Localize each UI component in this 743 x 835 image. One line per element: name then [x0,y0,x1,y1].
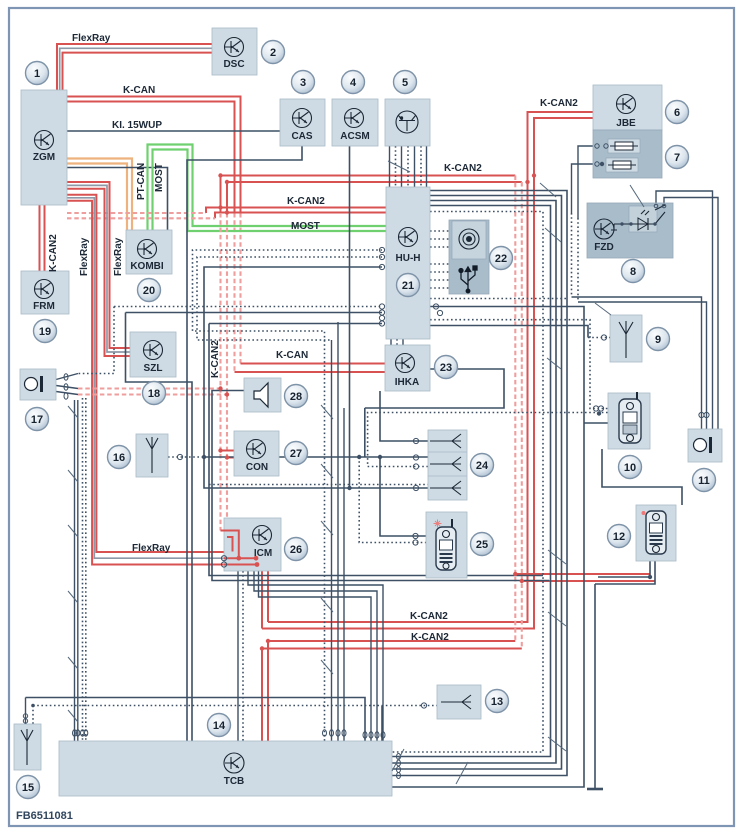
svg-text:13: 13 [491,696,503,708]
node 11 [693,469,716,492]
svg-text:KOMBI: KOMBI [130,261,164,272]
antenna symbol box 16 [146,437,158,473]
node 9 [647,328,670,351]
node 1 [26,62,49,85]
node 17 [26,408,49,431]
antenna symbol box 13 [441,695,471,709]
svg-text:TCB: TCB [224,776,245,787]
wire antenna 15 dotted to antenna 13 [33,705,437,707]
node 3 [292,71,315,94]
wire channel 408 [365,369,504,408]
antenna splitter box 24 [428,430,467,500]
wire fuse box to camera 11 [572,164,594,213]
svg-text:15: 15 [22,782,34,794]
speaker symbol box 28 [254,383,268,407]
wire K-CAN2 ZGM to FRM [39,205,41,271]
node 19 [34,320,57,343]
svg-text:16: 16 [113,452,125,464]
svg-text:K-CAN2: K-CAN2 [48,234,59,272]
svg-text:1: 1 [34,68,40,80]
wire FlexRay B ZGM to SZL [67,182,130,348]
wire ICM to TCB [237,571,239,741]
telephone symbol box 10 [619,392,641,443]
control unit SZL box 18 [130,332,176,377]
wire red pair to telephone 12 [515,573,650,575]
node 10 [619,456,642,479]
svg-text:11: 11 [698,475,710,487]
svg-text:9: 9 [655,334,661,346]
svg-text:FlexRay: FlexRay [113,237,124,276]
antenna symbols box 24 [430,434,461,448]
svg-text:ZGM: ZGM [33,152,55,163]
svg-text:19: 19 [39,326,51,338]
svg-text:FRM: FRM [33,301,55,312]
microphone box 11 [688,429,722,462]
wire box5 stubs to HU-H [389,146,391,187]
node 21 [397,274,420,297]
wire antenna 15 solid [26,698,366,742]
control unit IHKA box 23 [385,345,430,391]
svg-text:23: 23 [440,362,452,374]
wire ZGM to KOMBI dark [67,168,168,231]
svg-text:2: 2 [270,47,276,59]
node 5 [394,71,417,94]
wire MOST KOMBI to HU-H [148,145,387,231]
wire dotted channel to box24 [209,484,428,486]
wire box24 top link [380,391,428,441]
svg-text:6: 6 [674,107,680,119]
wire dotted bus to HU-H c [193,250,383,741]
svg-text:27: 27 [290,448,302,460]
svg-text:MOST: MOST [291,221,320,232]
wire CAS down to TCB [187,146,302,741]
svg-text:26: 26 [290,544,302,556]
svg-text:CON: CON [246,462,268,473]
node 7 [666,146,689,169]
microphone symbol box 17 [25,376,44,392]
svg-text:25: 25 [476,539,488,551]
svg-text:FlexRay: FlexRay [132,543,171,554]
wire antenna 13 drop [381,706,383,742]
wire HU-H to telephone 10 and TCB [392,307,584,788]
ground lead telephone [594,584,596,788]
svg-text:7: 7 [674,152,680,164]
node 20 [138,279,161,302]
control unit ACSM box 4 [332,99,378,146]
svg-text:K-CAN2: K-CAN2 [411,632,449,643]
wire HU-H to AV box stubs [430,230,449,232]
node 25 [471,533,494,556]
wire K-CAN dashed to microphone 17 [78,387,221,389]
microphone box 17 [20,369,56,400]
svg-text:17: 17 [31,414,43,426]
wire middle drops to TCB [337,322,339,741]
node 26 [285,538,308,561]
wire microphone 17 fan [56,374,78,380]
svg-text:K-CAN2: K-CAN2 [210,340,221,378]
svg-text:14: 14 [213,720,226,732]
wire K-CAN2 risers to ICM and TCB [267,571,269,622]
antenna symbol box 9 [619,321,633,358]
svg-text:18: 18 [148,388,160,400]
svg-text:3: 3 [300,77,306,89]
wire box24 dotted to telephone 10 [368,413,608,467]
wire HU-H right loop to TCB [392,191,567,776]
svg-text:8: 8 [630,266,636,278]
fuse carrier box 7 [593,130,662,178]
telephone symbol box 12 [642,511,667,554]
wire dotted bus to HU-H a [114,306,382,308]
wire red elbows in ICM [221,531,239,559]
wire box24 to box25 dotted a [204,456,428,458]
node 13 [486,690,509,713]
microphone symbol box 11 [694,437,713,453]
wire K-CAN2 ZGM to HU-H [206,208,386,214]
wire FZD to camera 11 [656,191,713,429]
node 15 [17,776,40,799]
svg-text:MOST: MOST [154,163,165,192]
control unit CON box 27 [234,431,279,476]
AV target symbol box 22 [459,229,479,249]
node 23 [435,356,458,379]
node 6 [666,101,689,124]
node 12 [608,525,631,548]
fuse symbols box 7 [608,139,640,153]
control unit FRM box 19 [21,271,69,314]
svg-text:HU-H: HU-H [396,253,421,264]
svg-text:DSC: DSC [223,59,244,70]
node 18 [143,382,166,405]
wire K-CAN branch to CON [220,176,222,213]
node 2 [262,41,285,64]
wire dotted bus 17 riser [78,307,114,374]
svg-text:KI. 15WUP: KI. 15WUP [112,120,162,131]
svg-text:21: 21 [402,280,414,292]
svg-text:28: 28 [290,391,302,403]
control unit box 5 [385,99,430,146]
AV connector box 22 [449,220,489,294]
slash marks [68,161,644,784]
svg-text:K-CAN2: K-CAN2 [287,196,325,207]
wire antenna 16 link [168,456,204,458]
wire K-CAN2 verticals to bottom [514,176,516,642]
svg-text:FZD: FZD [594,242,613,253]
svg-text:FlexRay: FlexRay [79,237,90,276]
ECU symbol template uses [35,131,54,150]
control unit CAS box 3 [280,99,325,146]
svg-text:PT-CAN: PT-CAN [136,163,147,200]
special symbol box 5 [396,111,418,133]
svg-text:5: 5 [402,77,408,89]
wire K-CAN dashed ZGM to HU-H [67,212,206,214]
wire under-ICM b speaker riser [212,391,549,581]
connector rings [23,144,709,779]
wire HU-H to antenna 9 [430,326,588,338]
control unit FZD box 8 [587,203,673,258]
speaker box 28 [244,378,281,412]
wire under-ICM a [209,324,543,576]
node 28 [285,385,308,408]
svg-text:22: 22 [495,253,507,265]
svg-text:K-CAN: K-CAN [123,85,155,96]
telephone symbol box 25 [434,519,457,570]
node 27 [285,442,308,465]
svg-text:SZL: SZL [144,363,163,374]
control unit TCB box 14 [59,741,392,796]
svg-text:4: 4 [350,77,357,89]
USB symbol box 22 [459,266,477,293]
wire solid bus to HU-H e [204,267,428,488]
antenna box 9 [610,315,642,362]
svg-text:K-CAN2: K-CAN2 [410,611,448,622]
wire FlexRay ZGM to DSC [57,44,212,90]
FZD symbol and relay drawing [594,219,614,239]
wire telephone 10 to telephone 12 [602,449,682,505]
wire K-CAN ZGM to IHKA [67,97,241,214]
svg-text:JBE: JBE [616,118,636,129]
svg-text:10: 10 [624,462,636,474]
wire left bundle to TCB [74,400,76,741]
node 24 [471,454,494,477]
control unit ICM box 26 [224,518,281,571]
control unit DSC box 2 [212,28,257,75]
node 4 [342,71,365,94]
wire HU-H dotted to telephone 10 [430,320,608,409]
svg-text:IHKA: IHKA [395,377,419,388]
wire K-CAN2 to JBE [221,175,516,177]
antenna box 13 [437,685,481,719]
antenna box 15 [14,724,41,770]
node 22 [490,247,513,270]
node 16 [108,446,131,469]
svg-text:20: 20 [143,285,155,297]
wire HU-H to IHKA stubs [390,339,392,345]
TCB symbol [224,753,244,773]
svg-text:FlexRay: FlexRay [72,33,111,44]
wire ACSM down [349,146,351,488]
control unit KOMBI box 20 [126,230,172,274]
wire dotted bus to HU-H d [197,257,382,340]
node 8 [622,260,645,283]
svg-text:K-CAN2: K-CAN2 [444,163,482,174]
wire KI. 15WUP ZGM to CAS [67,130,280,132]
control unit ZGM box 1 [21,90,67,205]
control unit HU-H box 21 [386,187,430,339]
antenna box 16 [136,434,168,477]
control unit JBE box 6 [593,85,662,130]
svg-text:12: 12 [613,531,625,543]
antenna symbol box 15 [21,729,33,765]
telephone box 12 [636,505,676,561]
svg-text:ICM: ICM [254,548,272,559]
svg-text:ACSM: ACSM [340,131,369,142]
telephone box 10 [608,393,650,449]
svg-text:CAS: CAS [291,131,312,142]
svg-text:24: 24 [476,460,489,472]
svg-text:K-CAN2: K-CAN2 [540,98,578,109]
wire FlexRay A ZGM to ICM [67,195,224,552]
wire telephone 12 down [598,561,650,577]
svg-text:FB6511081: FB6511081 [16,810,73,822]
telephone box 25 [426,512,467,578]
wire PT-CAN ZGM to KOMBI [67,159,132,231]
wire solid bus to HU-H b [126,312,383,314]
ground [587,788,603,791]
svg-text:K-CAN: K-CAN [276,350,308,361]
node 14 [208,714,231,737]
